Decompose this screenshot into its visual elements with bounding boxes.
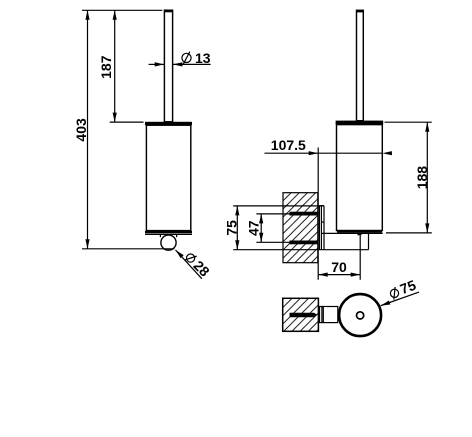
handle rod (side view) (357, 10, 364, 120)
diameter symbol for 28 (184, 251, 198, 265)
wall section (top view, hatched) (283, 298, 319, 331)
holder bottom plate (side view) (337, 231, 382, 233)
extension lines 188 (385, 122, 432, 233)
holder top cap (side view) (336, 121, 384, 125)
dimension 403 line (85, 10, 89, 249)
mounting plate and arm (top view) (320, 307, 338, 323)
dimension 187 line (113, 10, 117, 122)
svg-text:13: 13 (195, 50, 211, 66)
holder bottom plate (front view) (145, 231, 192, 235)
holder top cap (front view) (145, 122, 192, 125)
dimension 47 line (259, 214, 263, 242)
svg-text:75: 75 (223, 220, 239, 236)
dimension Ø13 leader lines (149, 62, 211, 66)
mounting plate (side view) (319, 206, 324, 250)
screw bottom (side view) (290, 241, 319, 245)
extension line for 187 bottom (110, 121, 144, 123)
dimension 75 line (235, 206, 239, 250)
svg-text:187: 187 (98, 55, 114, 79)
screw top (side view) (290, 212, 319, 216)
ball bracket (front view) (160, 234, 176, 237)
dimension 107.5 line (265, 151, 392, 155)
svg-text:188: 188 (414, 166, 430, 190)
support arm (side view) (233, 233, 368, 249)
extension lines 47 (256, 214, 290, 242)
svg-text:107.5: 107.5 (271, 137, 306, 153)
diameter symbol for 13 (182, 52, 191, 65)
extension line 75 top (233, 205, 324, 207)
svg-text:70: 70 (331, 259, 347, 275)
wall section (side view, hatched) (283, 193, 318, 263)
holder outline circle (top view) (339, 294, 381, 336)
diameter symbol for 75 (389, 287, 401, 301)
ball knob (front view) (161, 235, 176, 250)
extension line top (overall height) (82, 9, 162, 11)
screw (top view) (290, 313, 318, 318)
holder body (side view) (337, 125, 383, 231)
svg-text:47: 47 (246, 220, 262, 236)
drain pin (side view) (358, 233, 362, 235)
bottom edge line (side view) (321, 232, 383, 234)
dimension Ø75 leader (381, 292, 419, 306)
inner hole circle (top view) (357, 312, 364, 319)
extension line bottom (overall height) (82, 248, 175, 250)
wall surface / extension line (317, 148, 319, 280)
holder body (front view) (146, 125, 190, 230)
extension line 70 right (359, 235, 361, 279)
dimension 188 line (425, 122, 429, 233)
svg-text:403: 403 (73, 118, 89, 142)
handle rod (front view) (164, 10, 172, 122)
dimension 70 line (318, 273, 360, 277)
dimension Ø28 leader (176, 250, 202, 279)
